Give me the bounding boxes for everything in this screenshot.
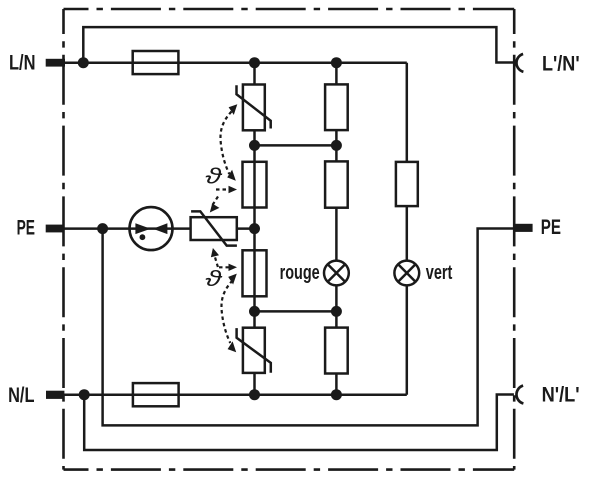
fuse F1 (L/N)	[133, 51, 179, 74]
varistor RV-H diagonal	[191, 211, 237, 245]
svg-text:ϑ: ϑ	[205, 266, 223, 292]
terminal PE left	[46, 225, 64, 233]
wire column2 segments	[335, 63, 338, 395]
wire column1 middle	[253, 130, 256, 327]
fuse F2 (N/L)	[133, 383, 179, 406]
varistor RV2 diagonal	[237, 328, 271, 373]
wire L/N main	[64, 61, 407, 64]
arrowhead short top	[229, 186, 238, 193]
junction dot col2 bottom	[331, 389, 342, 400]
thermal fuse FT2 body	[243, 250, 267, 296]
arrowhead to RV1	[229, 104, 238, 115]
svg-text:L/N: L/N	[9, 51, 36, 75]
arrowhead down-left	[210, 204, 220, 213]
svg-text:PE: PE	[541, 215, 561, 239]
arrowhead to RV2	[228, 341, 237, 352]
device outline dashed border bottom	[64, 468, 515, 471]
terminal N/L	[46, 391, 64, 399]
junction dot rail1 left	[249, 140, 260, 151]
thermal arrow short top (to FT1)	[216, 188, 229, 190]
wire PE rail	[64, 227, 191, 230]
wire N/L main	[64, 393, 407, 396]
device outline dashed border right	[513, 9, 516, 470]
svg-text:vert: vert	[426, 262, 453, 284]
svg-text:N'/L': N'/L'	[542, 383, 580, 407]
gas discharge tube electrodes	[135, 223, 167, 234]
junction dot L/N	[78, 57, 89, 68]
resistor R3	[325, 328, 348, 374]
junction dot rail1 right	[331, 140, 342, 151]
thermal arrow curve top (to RV1 / FT1)	[220, 112, 231, 175]
svg-text:ϑ: ϑ	[205, 163, 223, 189]
resistor R2	[325, 161, 348, 207]
junction dot N/L	[79, 389, 90, 400]
svg-text:L'/N': L'/N'	[542, 51, 580, 75]
resistor R4	[396, 162, 418, 206]
thermal arrow down-left (to RV-H)	[213, 197, 219, 206]
wire PE rail right part	[237, 227, 255, 230]
junction dot col2 top	[331, 57, 342, 68]
thermal fuse FT1 body	[243, 162, 267, 208]
svg-text:N/L: N/L	[8, 383, 34, 407]
wire column1 top	[253, 63, 256, 85]
device outline dashed border left	[62, 9, 65, 470]
junction dot rail2 left	[249, 306, 260, 317]
gas discharge tube U1 circle	[130, 207, 173, 250]
wire bottom loop to N'/L'	[84, 395, 514, 451]
junction dot rail2 right	[331, 306, 342, 317]
wire rail lower	[255, 310, 337, 313]
terminal L/N	[46, 59, 65, 67]
arrowhead short bottom	[229, 264, 238, 271]
thermal arrow short bottom (to FT2)	[219, 266, 229, 268]
wire top loop to L'/N'	[83, 27, 514, 63]
connector arc N'/L'	[516, 386, 523, 404]
junction dot col1 top	[249, 57, 260, 68]
varistor RV1 body	[243, 85, 265, 131]
wire column3 segments	[406, 63, 409, 395]
device outline dashed border top	[64, 8, 515, 11]
gas discharge tube gas dot	[140, 234, 146, 240]
wire rail upper	[255, 144, 337, 147]
varistor RV-H body	[191, 217, 237, 240]
varistor RV2 body	[243, 328, 265, 373]
junction dot PE	[97, 223, 108, 234]
thermal arrow up (to RV-H bottom)	[215, 256, 218, 268]
svg-text:rouge: rouge	[280, 262, 320, 284]
wire column1 bottom	[253, 373, 256, 395]
svg-text:PE: PE	[17, 216, 35, 240]
wire PE return loop	[103, 229, 515, 426]
arrowhead up	[211, 248, 219, 257]
junction dot col1 bottom	[249, 389, 260, 400]
lamp rouge cross	[328, 264, 345, 281]
arrowhead curve-bottom upper end	[228, 274, 237, 285]
connector arc L'/N'	[516, 54, 523, 72]
thermal arrow curve bottom (to FT2 / RV2)	[221, 281, 232, 344]
lamp vert cross	[398, 264, 415, 281]
varistor RV1 diagonal	[237, 85, 271, 128]
arrowhead curve-top lower end	[227, 170, 236, 181]
junction dot col1 PE	[249, 223, 260, 234]
terminal PE right	[515, 224, 533, 232]
resistor R1	[325, 84, 348, 130]
lamp vert circle	[394, 261, 419, 286]
lamp rouge circle	[324, 261, 349, 286]
